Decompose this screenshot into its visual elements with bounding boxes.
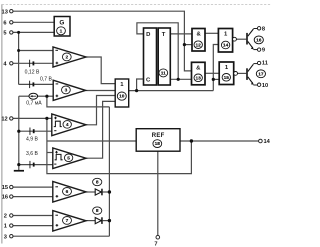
- svg-text:16: 16: [256, 38, 262, 44]
- svg-text:&: &: [196, 32, 201, 38]
- svg-text:REF: REF: [152, 133, 165, 139]
- svg-text:14: 14: [223, 43, 229, 49]
- svg-text:&: &: [196, 66, 201, 72]
- svg-text:0,7 В: 0,7 В: [40, 77, 52, 83]
- svg-text:11: 11: [161, 71, 166, 77]
- svg-text:16: 16: [2, 195, 8, 201]
- svg-text:3,6 В: 3,6 В: [26, 151, 38, 157]
- svg-text:4: 4: [66, 122, 69, 128]
- svg-text:0,7 мА: 0,7 мА: [26, 100, 42, 106]
- svg-text:13: 13: [2, 9, 8, 15]
- svg-text:T: T: [162, 32, 166, 38]
- svg-text:2: 2: [4, 214, 7, 220]
- svg-text:D: D: [146, 32, 150, 38]
- svg-text:12: 12: [196, 42, 202, 48]
- svg-text:10: 10: [262, 83, 268, 89]
- svg-text:10: 10: [119, 94, 125, 100]
- svg-text:8: 8: [96, 208, 99, 214]
- svg-text:4,9 В: 4,9 В: [26, 136, 38, 142]
- svg-text:0,12 В: 0,12 В: [25, 69, 40, 75]
- svg-text:8: 8: [96, 180, 99, 186]
- svg-text:5: 5: [67, 155, 70, 161]
- svg-text:7: 7: [66, 218, 69, 224]
- svg-text:12: 12: [1, 117, 7, 123]
- svg-text:3: 3: [65, 88, 68, 94]
- svg-text:15: 15: [224, 75, 230, 81]
- svg-text:11: 11: [262, 61, 268, 67]
- svg-text:5: 5: [3, 31, 6, 37]
- svg-text:C: C: [146, 77, 151, 83]
- svg-text:18: 18: [155, 141, 161, 147]
- svg-text:6: 6: [66, 189, 69, 195]
- svg-text:13: 13: [196, 75, 202, 81]
- svg-text:17: 17: [258, 71, 264, 77]
- svg-text:6: 6: [3, 20, 6, 26]
- svg-text:8: 8: [262, 26, 265, 32]
- svg-text:1: 1: [60, 28, 63, 34]
- svg-text:15: 15: [2, 185, 8, 191]
- svg-text:G: G: [59, 19, 64, 26]
- svg-text:3: 3: [4, 234, 7, 240]
- svg-text:1: 1: [4, 224, 7, 230]
- svg-text:7: 7: [154, 241, 157, 247]
- svg-text:2: 2: [65, 55, 68, 61]
- svg-text:9: 9: [262, 48, 265, 54]
- svg-text:14: 14: [264, 139, 271, 145]
